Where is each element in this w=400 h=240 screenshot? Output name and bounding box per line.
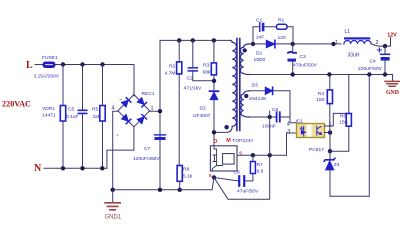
svg-text:VDR1: VDR1: [42, 106, 55, 112]
svg-text:0.1uF: 0.1uF: [66, 114, 79, 120]
svg-text:R4: R4: [318, 91, 325, 97]
svg-text:14471: 14471: [42, 113, 56, 119]
node A junction dots on L rail: [61, 62, 65, 66]
HV bus: [160, 39, 230, 41]
resistor R1: [277, 17, 288, 41]
svg-text:1N4148: 1N4148: [249, 96, 266, 102]
resistor R8: [177, 166, 193, 190]
svg-text:D3: D3: [252, 83, 259, 89]
transformer secondary lower: [241, 91, 250, 117]
ground GND1: [105, 190, 122, 221]
svg-text:10D0: 10D0: [254, 57, 266, 63]
svg-text:4.7M: 4.7M: [165, 71, 176, 77]
svg-text:47uF/50V: 47uF/50V: [237, 189, 259, 195]
wire output to 12V: [371, 38, 390, 47]
ground rail (primary): [113, 189, 212, 191]
svg-text:1nF: 1nF: [256, 35, 264, 41]
rectifier REC1: [112, 91, 155, 139]
svg-text:1M: 1M: [93, 114, 100, 120]
svg-text:5.1k: 5.1k: [183, 174, 193, 180]
wire opto pin1 to R6 top: [325, 113, 349, 126]
svg-text:220uF/50V: 220uF/50V: [358, 66, 383, 72]
wire S pin node and diagonals: [212, 175, 216, 179]
svg-text:C1: C1: [256, 17, 263, 23]
svg-text:~: ~: [116, 133, 119, 139]
svg-text:R3: R3: [203, 63, 210, 69]
wire secondary ground rail: [250, 75, 393, 81]
svg-text:M: M: [226, 138, 231, 144]
resistor R4: [316, 75, 332, 133]
svg-text:3: 3: [287, 129, 290, 135]
svg-text:471/1kV: 471/1kV: [184, 86, 203, 92]
svg-text:s: s: [209, 173, 212, 179]
svg-text:C2: C2: [187, 76, 194, 82]
wire L rail: [35, 64, 134, 66]
optocoupler IC1 PC817: [287, 119, 332, 153]
capacitor C3: [288, 44, 318, 75]
svg-text:Z4: Z4: [334, 162, 340, 168]
wire N rail: [44, 167, 107, 169]
svg-text:C4: C4: [370, 59, 377, 65]
capacitor C2: [184, 40, 215, 91]
svg-text:R6: R6: [340, 114, 347, 120]
wire opto pin3 to C line: [287, 133, 297, 155]
wire stub above C6 junction: [269, 111, 271, 117]
svg-text:4: 4: [112, 106, 115, 112]
resistor R2: [165, 40, 182, 165]
svg-text:C3: C3: [300, 54, 307, 60]
svg-text:C7: C7: [144, 146, 151, 152]
diode D3: [249, 83, 290, 118]
wire snubber loop: [253, 27, 293, 44]
wire C pin line: [237, 154, 287, 156]
svg-text:UF4007: UF4007: [193, 113, 211, 119]
ground GND (secondary): [385, 81, 399, 96]
capacitor C5: [66, 65, 87, 169]
svg-text:~: ~: [119, 98, 122, 104]
wire lower secondary bottom to C6 line: [250, 116, 277, 118]
svg-text:R2: R2: [169, 64, 176, 70]
svg-text:150: 150: [316, 97, 324, 103]
svg-text:68k: 68k: [203, 70, 211, 76]
diode D2: [193, 91, 218, 132]
svg-text:6.8: 6.8: [257, 169, 264, 175]
capacitor C6: [262, 107, 297, 130]
resistor R7: [250, 155, 263, 181]
svg-text:C6: C6: [272, 107, 279, 113]
svg-text:C5: C5: [68, 107, 75, 113]
varistor VDR1: [42, 65, 66, 169]
svg-text:150: 150: [339, 120, 347, 126]
wire L rail drop to bridge top: [133, 65, 135, 97]
wire secondary output line: [250, 43, 342, 45]
svg-text:R7: R7: [257, 162, 264, 168]
wire bridge pin1 to HV bus: [149, 40, 160, 189]
resistor R3: [203, 40, 217, 90]
transformer T1 primary: [214, 40, 236, 132]
svg-text:REC1: REC1: [142, 91, 155, 97]
wire opto pin2: [325, 133, 331, 152]
svg-text:470uF/50V: 470uF/50V: [293, 63, 318, 69]
svg-text:120: 120: [278, 35, 286, 41]
svg-text:FUSE1: FUSE1: [42, 55, 58, 61]
svg-text:R8: R8: [183, 167, 190, 173]
svg-text:D2: D2: [200, 106, 207, 112]
svg-text:GND: GND: [386, 90, 399, 96]
svg-text:N: N: [34, 163, 42, 174]
svg-text:C8: C8: [234, 170, 241, 176]
capacitor C4: [358, 46, 390, 74]
wire bridge pin4 to ground rail: [113, 111, 118, 190]
svg-text:L1: L1: [345, 29, 351, 35]
svg-text:100nF: 100nF: [262, 124, 276, 130]
resistor R6: [330, 75, 351, 152]
svg-text:3.15A/250V: 3.15A/250V: [34, 74, 60, 80]
svg-text:PC817: PC817: [309, 147, 324, 153]
resistor R5: [92, 65, 105, 169]
fuse FUSE1: [34, 55, 60, 80]
svg-text:4: 4: [287, 122, 290, 128]
svg-text:1: 1: [335, 40, 338, 46]
svg-text:120uF/450V: 120uF/450V: [133, 156, 160, 162]
diode D1: [254, 40, 275, 63]
wire N step to bridge bottom: [107, 127, 134, 169]
svg-text:GND1: GND1: [105, 215, 122, 221]
capacitor C1: [256, 17, 265, 40]
wire C6 junction down to C line: [269, 117, 271, 155]
svg-text:1: 1: [151, 106, 154, 112]
svg-text:33uH: 33uH: [348, 53, 360, 59]
svg-text:R1: R1: [278, 17, 285, 23]
svg-text:TOP224Y: TOP224Y: [232, 138, 254, 144]
wire feedback bottom loop: [330, 75, 369, 197]
transformer secondary upper: [240, 44, 249, 75]
svg-text:12V: 12V: [387, 32, 397, 38]
transformer core: [237, 39, 240, 131]
capacitor C8: [214, 170, 259, 195]
svg-text:R5: R5: [92, 107, 99, 113]
zener ZD4: [324, 151, 340, 196]
IC U1 TOP224Y: [209, 130, 255, 179]
svg-text:L: L: [26, 60, 33, 71]
inductor L1: [335, 29, 379, 59]
svg-text:D: D: [214, 139, 218, 145]
svg-text:IC1: IC1: [296, 119, 304, 125]
capacitor C7: [133, 135, 166, 162]
svg-text:220VAC: 220VAC: [2, 100, 31, 109]
svg-text:D1: D1: [256, 51, 263, 57]
